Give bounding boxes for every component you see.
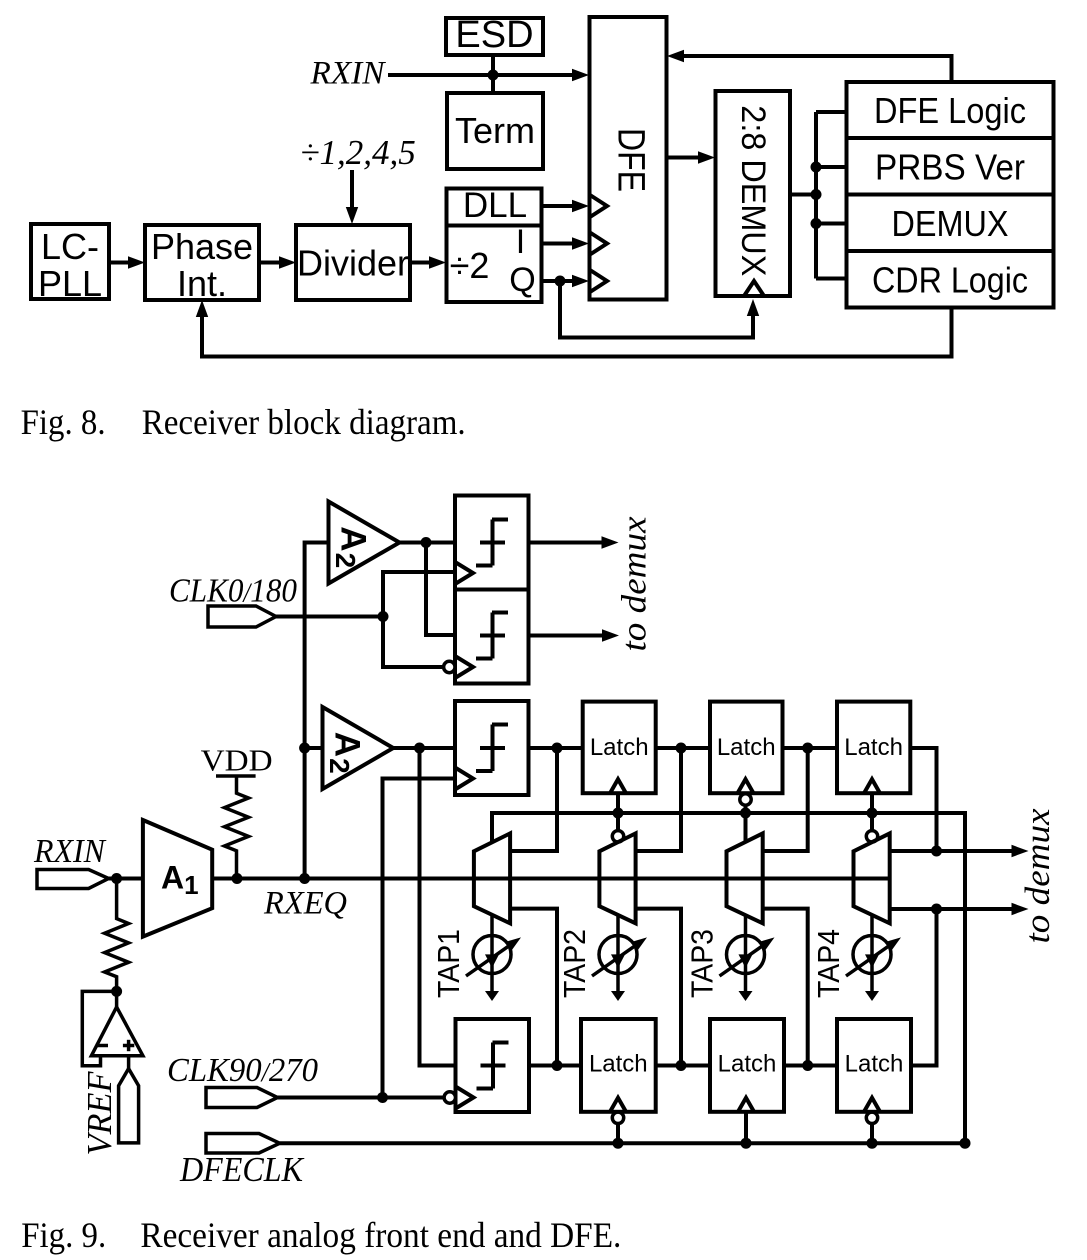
slicer top odd [444,590,529,684]
current source TAP1 [431,915,521,1001]
amplifier A2 top [329,502,400,584]
svg-text:DFE Logic: DFE Logic [874,90,1026,131]
wire RXEQ summing line [212,873,890,922]
inversion bubble latch M2 clock [740,794,751,813]
wire to demux right bottom [890,903,1029,1066]
wire mid-row clock line from DFECLK [492,813,965,1143]
svg-text:CLK90/270: CLK90/270 [167,1052,318,1089]
svg-text:I: I [516,223,525,261]
svg-text:Latch: Latch [717,734,776,761]
caption figure 8 [21,402,466,442]
current source TAP4 [811,915,901,1001]
block DFE [590,17,667,300]
wire select mux TAP2 with bubble [612,813,623,842]
supply VDD with resistor [201,743,273,885]
svg-text:RXEQ: RXEQ [263,886,347,922]
svg-text:Divider: Divider [297,243,409,284]
svg-text:Fig. 9.: Fig. 9. [21,1215,106,1255]
svg-text:Latch: Latch [845,1051,904,1078]
wire feedback to Phase Int [196,300,952,357]
wire A2 top output [400,537,456,635]
resistor to comparator [105,879,129,997]
wire to demux right top [890,845,1029,857]
latch mid 2 [710,702,783,794]
block ESD [446,14,543,56]
block LC-PLL [31,224,109,304]
svg-text:DFECLK: DFECLK [179,1150,304,1189]
wire bottom data chain [529,1060,837,1071]
svg-text:DEMUX: DEMUX [892,203,1009,244]
svg-text:Latch: Latch [590,734,649,761]
wire Phase Int to Divider [259,256,296,268]
wire Divider to div2 [410,256,446,268]
svg-text:Latch: Latch [718,1051,777,1078]
svg-text:TAP4: TAP4 [811,929,846,998]
svg-text:TAP1: TAP1 [431,929,466,998]
wire CLK90/270 [278,1092,444,1103]
wire clock stub latch M3 [870,793,874,813]
svg-text:Q: Q [509,261,535,299]
wire mux3 inputs [763,748,808,1066]
wire clock stub latch M1 [616,793,620,813]
wire DLL clock to DFE [542,200,589,212]
svg-text:Latch: Latch [844,734,903,761]
wire I clock to DFE [542,237,589,249]
wire clock stub latch B2 [744,1112,748,1143]
block Phase Int [145,225,259,304]
port CLK90/270 [167,1052,318,1108]
svg-text:÷2: ÷2 [450,245,490,286]
svg-text:to demux: to demux [615,516,654,651]
mux TAP1 [474,833,510,923]
wire top demux arrow 1 [529,536,619,548]
wire DFECLK line [280,1141,965,1145]
wire select mux TAP3 [744,813,748,842]
block logic stack [847,82,1054,308]
wire top demux arrow 2 [529,629,620,641]
wire CLK90 to mid slicer clock [383,779,456,1098]
svg-text:CLK0/180: CLK0/180 [169,573,297,610]
svg-text:TAP3: TAP3 [685,929,720,998]
svg-text:Latch: Latch [589,1051,648,1078]
mux TAP2 [599,833,635,923]
wire DEMUX output bus [790,112,847,279]
svg-text:Phase: Phase [151,226,253,267]
svg-text:Term: Term [455,110,535,151]
wire feedback to DFE [667,50,952,82]
slicer bottom [444,1019,529,1112]
wire mux1 inputs [510,748,557,1066]
latch bottom 1 [581,1019,656,1112]
wire RXIN into DFE [388,55,589,93]
junction dots DFECLK line [613,1138,971,1149]
wire Q clock to DEMUX [560,281,759,338]
svg-text:Fig. 8.: Fig. 8. [21,402,106,442]
latch mid 3 [837,702,910,794]
port DFECLK [179,1134,304,1190]
latch mid 1 [583,702,656,794]
wire A2 mid output [393,743,455,1066]
port RXIN [33,833,109,889]
inversion bubble latch B3 clock [866,1112,877,1143]
port CLK0/180 [169,573,297,628]
svg-text:PLL: PLL [38,263,102,304]
amplifier A1 [143,820,212,937]
block DLL div2 IQ [447,186,542,302]
svg-text:÷1,2,4,5: ÷1,2,4,5 [300,133,415,172]
svg-text:Receiver analog front end and: Receiver analog front end and DFE. [140,1215,621,1255]
current source TAP2 [557,915,647,1001]
block 2:8 DEMUX [716,91,791,296]
svg-text:PRBS Ver: PRBS Ver [875,147,1025,188]
svg-text:to demux: to demux [1018,808,1057,943]
slicer top even [455,496,529,590]
amplifier A2 mid [323,707,394,789]
wire LC-PLL to Phase Int [109,256,145,268]
svg-text:LC-: LC- [41,226,99,267]
junction dots mid clock line [613,808,878,819]
caption figure 9 [21,1215,621,1255]
svg-text:VREF: VREF [80,1071,119,1156]
port VREF [80,1056,139,1156]
svg-text:Receiver block diagram.: Receiver block diagram. [142,402,466,442]
wire ratio select into Divider [346,170,358,224]
svg-text:2:8 DEMUX: 2:8 DEMUX [734,105,772,276]
block Term [447,93,543,169]
wire riser to A2 amps [299,543,328,879]
wire mid data chain [529,743,937,852]
mux TAP3 [727,833,763,923]
svg-text:RXIN: RXIN [309,56,386,92]
svg-text:RXIN: RXIN [33,833,107,870]
svg-text:VDD: VDD [201,743,273,778]
svg-text:Int.: Int. [177,263,227,304]
block Divider [296,225,410,300]
inversion bubble latch B1 clock [612,1112,623,1143]
svg-text:DFE: DFE [610,128,652,192]
latch bottom 3 [837,1019,911,1112]
svg-text:CDR Logic: CDR Logic [872,260,1028,301]
wire RXIN node [109,873,143,884]
wire DFE to DEMUX [667,151,716,163]
svg-text:ESD: ESD [455,14,533,56]
svg-text:TAP2: TAP2 [557,929,592,998]
latch bottom 2 [710,1019,784,1112]
current source TAP3 [685,915,775,1001]
svg-text:DLL: DLL [463,186,527,225]
comparator VREF [91,991,142,1055]
wire select mux TAP4 with bubble [866,813,877,842]
mux TAP4 [854,833,890,923]
wire Q clock to DFE [542,275,589,287]
wire mux2 inputs [636,748,681,1066]
wire comparator feedback [82,991,116,1065]
slicer mid [455,701,529,795]
wire CLK0/180 distribution [276,572,455,667]
